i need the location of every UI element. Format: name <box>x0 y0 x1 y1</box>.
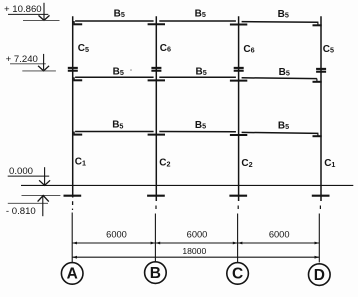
svg-text:C1: C1 <box>75 157 86 168</box>
beam end seat dash level3 axis A <box>74 134 83 136</box>
beam B5 level1 bay B-C <box>159 20 236 22</box>
beam end seat dash level3 axis B <box>148 134 165 136</box>
beam end seat dash level1 axis C <box>230 24 247 26</box>
svg-text:6000: 6000 <box>106 229 127 239</box>
svg-text:+ 7.240: + 7.240 <box>6 54 38 65</box>
column line axis C <box>238 16 240 201</box>
dimension line 6000 row <box>72 242 319 244</box>
level marker +7.240 <box>6 54 56 71</box>
beam B5 level3 bay B-C <box>159 131 236 133</box>
foundation tick axis D <box>312 195 330 197</box>
grid bubble A <box>61 263 83 285</box>
beam end seat dash level1 axis D <box>313 24 322 26</box>
level marker 0.000 <box>8 166 50 185</box>
svg-text:B5: B5 <box>112 120 123 131</box>
beam end seat dash level2 axis A <box>74 79 83 81</box>
level marker -0.810 <box>6 195 61 217</box>
column axis A splice dashes at +7.240 <box>68 67 78 69</box>
column axis B splice dashes at +7.240 <box>151 67 161 69</box>
axis A extension line to bubble <box>71 213 73 263</box>
dimension arrows row1 <box>72 242 319 245</box>
svg-text:B5: B5 <box>113 66 124 77</box>
svg-text:B5: B5 <box>195 120 206 131</box>
beam B5 level2 bay A-B <box>75 76 154 78</box>
svg-text:C5: C5 <box>323 44 334 55</box>
beam end seat dash level3 axis C <box>230 134 247 136</box>
beam end seat dash level1 axis B <box>148 23 165 25</box>
column axis D splice dashes at +7.240 <box>316 68 326 70</box>
svg-text:B5: B5 <box>195 8 206 19</box>
foundation tick axis B <box>147 195 165 197</box>
svg-text:D: D <box>314 267 325 284</box>
axis D extension line to bubble <box>318 214 320 263</box>
svg-text:C5: C5 <box>78 43 89 54</box>
beam end seat dash level2 axis C <box>230 80 247 82</box>
axis B dash-dot below foundation <box>155 206 157 210</box>
svg-text:B: B <box>150 265 161 282</box>
grid bubble C <box>227 263 249 285</box>
column line axis A <box>72 16 74 197</box>
svg-text:B5: B5 <box>278 9 289 20</box>
svg-text:C2: C2 <box>241 158 252 169</box>
beam end seat dash level3 axis D <box>313 135 322 137</box>
beam B5 level1 bay C-D <box>242 21 319 24</box>
svg-text:+ 10.860: + 10.860 <box>4 4 42 15</box>
svg-text:C6: C6 <box>160 43 171 54</box>
svg-text:C1: C1 <box>324 158 335 169</box>
axis D dash-dot below foundation <box>319 206 321 210</box>
beam end tick level3 axis D <box>317 133 319 136</box>
beam end seat dash level2 axis D <box>313 81 322 83</box>
beam B5 level2 bay C-D <box>242 77 317 80</box>
svg-text:18000: 18000 <box>182 246 206 256</box>
column line axis D <box>320 16 322 201</box>
level marker +10.860 <box>4 3 60 21</box>
dimension arrows row2 <box>72 256 319 259</box>
svg-text:6000: 6000 <box>187 229 208 239</box>
axis C dash-dot below foundation <box>237 206 239 210</box>
beam end tick level1 axis D <box>317 22 319 25</box>
beam B5 level1 bay A-B <box>75 20 154 22</box>
scan speck <box>130 69 132 71</box>
svg-text:B5: B5 <box>278 120 289 131</box>
svg-text:6000: 6000 <box>269 229 290 239</box>
grid bubble B <box>145 262 167 284</box>
svg-text:B5: B5 <box>114 8 125 19</box>
beam end seat dash level1 axis A <box>74 23 83 25</box>
beam B5 level3 bay A-B <box>75 131 154 133</box>
svg-text:C6: C6 <box>243 44 254 55</box>
beam end tick level1 axis A <box>73 21 75 25</box>
svg-text:B5: B5 <box>196 66 207 77</box>
svg-text:- 0.810: - 0.810 <box>6 206 36 217</box>
svg-text:C: C <box>232 266 243 283</box>
beam end seat dash level2 axis B <box>148 79 165 81</box>
foundation tick axis A <box>64 195 82 197</box>
axis A dash-dot below foundation <box>72 209 74 210</box>
foundation tick axis C <box>229 195 247 197</box>
axis C extension line to bubble <box>237 214 239 263</box>
beam end tick level2 axis D <box>316 79 318 82</box>
beam end tick level2 axis A <box>73 77 75 80</box>
beam B5 level2 bay B-C <box>159 76 236 78</box>
svg-text:B5: B5 <box>279 67 290 78</box>
column axis C splice dashes at +7.240 <box>234 67 244 69</box>
column line axis B <box>155 16 157 201</box>
beam end tick level3 axis A <box>73 132 75 135</box>
svg-text:A: A <box>67 266 78 283</box>
grid bubble D <box>309 264 331 286</box>
beam B5 level3 bay C-D <box>242 132 319 133</box>
ground line 0.000 <box>21 184 353 186</box>
svg-text:0.000: 0.000 <box>9 166 33 177</box>
dimension line 18000 row <box>72 256 319 258</box>
axis B extension line to bubble <box>154 214 156 263</box>
svg-text:C2: C2 <box>159 158 170 169</box>
